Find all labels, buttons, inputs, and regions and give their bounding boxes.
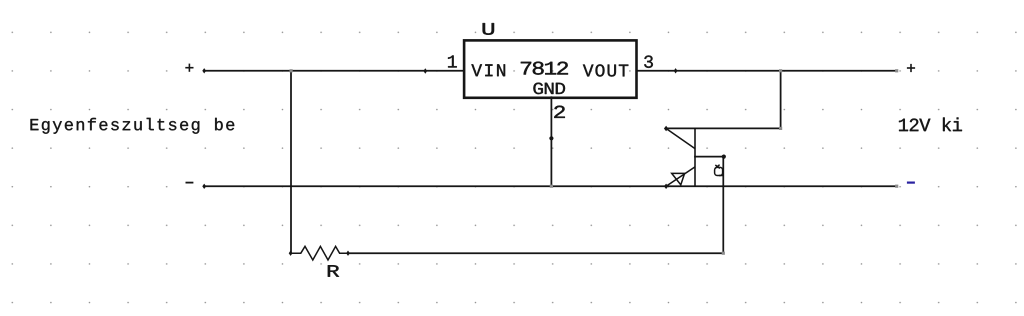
wire collector feed horizontal bbox=[666, 127, 781, 129]
resistor R label bbox=[328, 265, 339, 276]
power symbol minus right blue bbox=[907, 182, 915, 184]
label 12V ki bbox=[899, 117, 962, 131]
label 7812 bbox=[521, 62, 568, 75]
transistor Q emitter lead bbox=[666, 167, 695, 186]
wire vertical branch from plus rail to resistor bbox=[290, 71, 292, 253]
junction grip minus rail right end bbox=[895, 185, 898, 188]
transistor Q bar bbox=[694, 128, 696, 186]
power symbol minus left bbox=[186, 182, 194, 184]
node pin 1 end dot bbox=[423, 68, 427, 73]
pin number 3 bbox=[644, 55, 653, 67]
junction grip plus rail right end bbox=[895, 69, 898, 72]
label GND bbox=[533, 83, 565, 95]
pin number 1 bbox=[448, 55, 457, 67]
wire VOUT output rail bbox=[637, 70, 897, 72]
node pin 3 end dot bbox=[674, 68, 678, 73]
wire GND pin 2 drop bbox=[550, 97, 552, 186]
node base dot bbox=[722, 155, 726, 159]
node pin 2 end dot bbox=[549, 136, 553, 140]
wire minus rail bbox=[204, 185, 896, 187]
wire VOUT branch drop bbox=[780, 71, 782, 129]
power symbol plus left bbox=[185, 64, 193, 72]
pin number 2 bbox=[554, 106, 564, 118]
label Egyenfeszultseg be bbox=[31, 118, 235, 134]
label VIN bbox=[471, 64, 505, 76]
transistor designator Q rotated bbox=[715, 165, 724, 176]
label VOUT bbox=[583, 64, 628, 76]
node emitter dot bbox=[664, 184, 668, 189]
junction grip base riser corner bbox=[722, 252, 725, 255]
node resistor right dot bbox=[346, 251, 350, 256]
wire base vertical riser bbox=[722, 157, 724, 254]
junction grip GND at minus rail bbox=[550, 185, 553, 188]
junction grip VOUT branch corner bbox=[779, 127, 782, 130]
wire base lead bbox=[695, 156, 723, 158]
power symbol plus right bbox=[907, 64, 915, 72]
junction grip VOUT branch top bbox=[779, 69, 782, 72]
node terminal dot minus input bbox=[202, 184, 206, 189]
node terminal dot plus input bbox=[202, 68, 206, 73]
transistor Q collector lead bbox=[666, 129, 695, 149]
junction grip on plus rail bbox=[290, 69, 293, 72]
regulator U box 7812 bbox=[464, 40, 636, 97]
wire plus input rail bbox=[204, 70, 464, 72]
node collector dot bbox=[664, 126, 668, 131]
label U bbox=[483, 23, 494, 35]
node resistor left dot bbox=[289, 251, 293, 256]
transistor Q emitter arrow bbox=[672, 173, 685, 184]
wire resistor right to base riser bbox=[348, 252, 723, 254]
resistor R bbox=[291, 246, 348, 260]
